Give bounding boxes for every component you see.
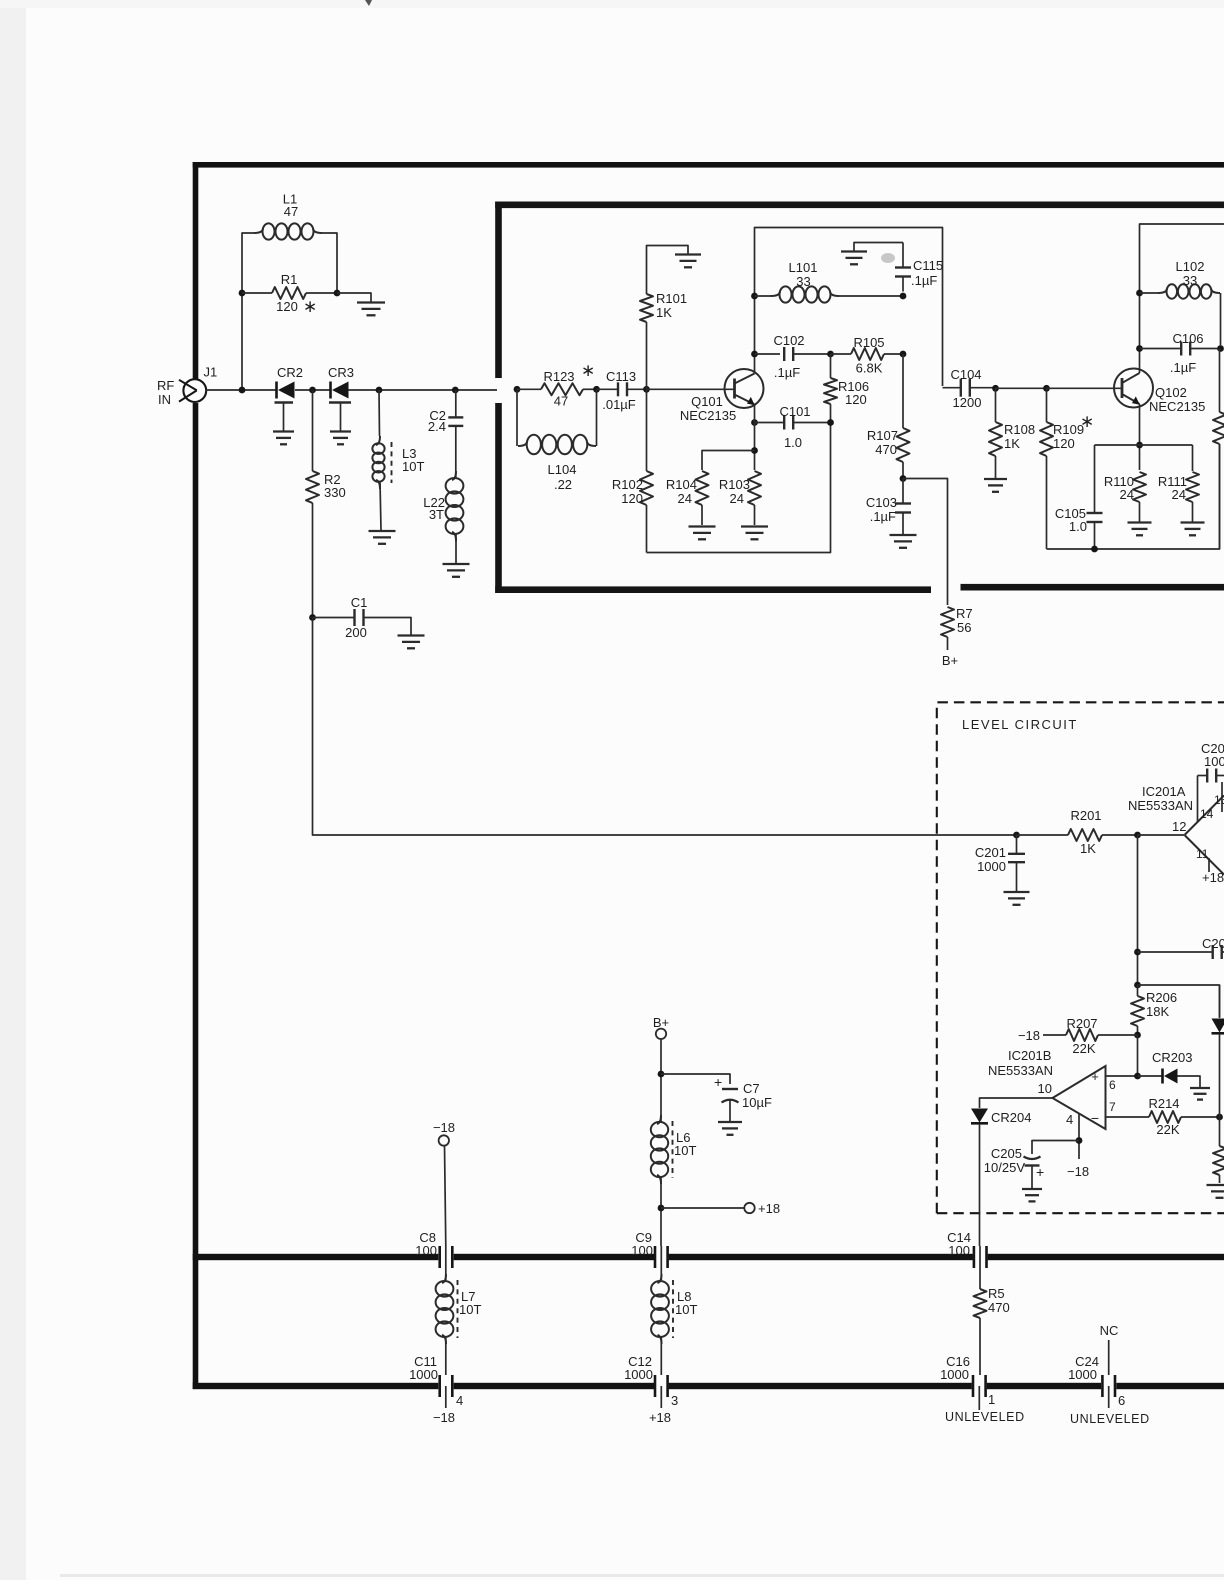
label R104 24 xyxy=(666,477,697,506)
junction C203 node xyxy=(1134,949,1141,956)
junction node D (C2 tap) xyxy=(452,387,459,394)
wire L104 right stub xyxy=(596,389,598,446)
capacitor C1 xyxy=(313,609,364,626)
junction node I (R108 tap) xyxy=(992,385,999,392)
registration mark top xyxy=(365,0,372,6)
svg-text:C201: C201 xyxy=(975,845,1006,860)
label R109* 120 xyxy=(1053,412,1094,451)
label C1 200 xyxy=(345,595,367,640)
wire node I to node J xyxy=(996,387,1047,389)
amplifier shield box left edge xyxy=(495,202,502,594)
capacitor C105 xyxy=(1087,445,1103,549)
wire level-circuit feed xyxy=(313,618,1017,836)
label pin 3 (module) xyxy=(671,1393,678,1408)
terminal B+ xyxy=(656,1029,666,1039)
svg-text:100: 100 xyxy=(1204,754,1224,769)
transistor Q102 xyxy=(1114,369,1153,408)
transistor Q101 xyxy=(725,369,764,408)
svg-text:.1µF: .1µF xyxy=(1170,360,1196,375)
label CR3 xyxy=(328,365,354,380)
junction C102/R106 node xyxy=(827,351,834,358)
resistor R105 xyxy=(831,348,904,360)
svg-text:C104: C104 xyxy=(950,367,981,382)
label UNLEVELED (pin 1) xyxy=(945,1410,1025,1424)
wire to R111 xyxy=(1192,445,1194,471)
svg-text:1K: 1K xyxy=(1004,436,1020,451)
svg-text:RF: RF xyxy=(157,378,174,393)
junction R206/R207 node xyxy=(1134,1032,1141,1039)
wire C11 to pin 4 stub xyxy=(445,1386,447,1408)
label R214 22K xyxy=(1148,1096,1179,1137)
label R201 1K xyxy=(1070,808,1101,856)
wire C1 to ground corner xyxy=(364,618,412,635)
junction node J (R109 tap) xyxy=(1043,385,1050,392)
capacitor C102 xyxy=(784,347,830,361)
resistor R7 xyxy=(941,607,954,650)
label R7 56 xyxy=(956,606,973,635)
svg-text:1000: 1000 xyxy=(624,1367,653,1382)
junction R107/C103 node xyxy=(900,475,907,482)
connector J1 (RF IN) xyxy=(179,365,217,403)
wire C8 to L7 xyxy=(445,1246,447,1280)
wire to R104 xyxy=(702,451,755,471)
svg-text:R201: R201 xyxy=(1070,808,1101,823)
wire L8 to C12 xyxy=(660,1336,662,1375)
label pin 11 and +18 xyxy=(1196,847,1224,885)
svg-text:10: 10 xyxy=(1038,1081,1052,1096)
resistor (right edge, partially cut) xyxy=(1213,349,1224,550)
svg-text:NEC2135: NEC2135 xyxy=(680,408,736,423)
wire op-amp node down xyxy=(1137,835,1139,985)
ground above R101 xyxy=(675,255,701,268)
label C115 .1uF xyxy=(911,258,943,288)
wire pin 6 xyxy=(1106,1075,1138,1077)
wire Q101 emitter xyxy=(754,405,756,471)
label L8 10T xyxy=(675,1289,697,1317)
svg-text:10T: 10T xyxy=(459,1302,481,1317)
label L3 10T xyxy=(402,446,424,474)
svg-text:1000: 1000 xyxy=(940,1367,969,1382)
svg-text:1K: 1K xyxy=(1080,841,1096,856)
shield wall (power feedthrough bus) xyxy=(193,1254,1224,1260)
svg-text:22K: 22K xyxy=(1072,1041,1095,1056)
label L101 33 xyxy=(789,260,818,289)
label C202 100 xyxy=(1201,741,1224,769)
svg-text:10µF: 10µF xyxy=(742,1095,772,1110)
label +18 terminal xyxy=(758,1201,780,1216)
wire collector node to L101 xyxy=(755,295,773,297)
label CR2 xyxy=(277,365,303,380)
svg-text:R105: R105 xyxy=(853,335,884,350)
diode CR2 xyxy=(277,382,295,399)
resistor R103 xyxy=(748,471,761,525)
svg-text:R214: R214 xyxy=(1148,1096,1179,1111)
inductor L1 xyxy=(254,223,322,239)
junction C105 bottom node xyxy=(1091,546,1098,553)
label R5 470 xyxy=(988,1286,1010,1315)
svg-text:1: 1 xyxy=(988,1392,995,1407)
svg-text:100: 100 xyxy=(415,1243,437,1258)
svg-text:C103: C103 xyxy=(866,495,897,510)
resistor R101 xyxy=(640,294,653,322)
svg-text:NC: NC xyxy=(1100,1323,1119,1338)
junction R214 right node xyxy=(1216,1114,1223,1121)
wire L6 to +18 node xyxy=(660,1176,662,1246)
svg-text:C20: C20 xyxy=(1202,936,1224,951)
junction node F xyxy=(514,386,521,393)
feedthrough capacitor C12 xyxy=(655,1375,668,1397)
ground below L22 xyxy=(443,564,470,577)
svg-text:+: + xyxy=(1036,1164,1044,1180)
label R111 24 xyxy=(1158,474,1187,502)
ground below C103 xyxy=(890,535,917,548)
svg-text:120: 120 xyxy=(276,299,298,314)
label C7 10uF xyxy=(742,1081,772,1110)
outer border top edge xyxy=(193,162,1224,168)
wire node A up to L1/R1 branch xyxy=(241,293,243,390)
svg-text:6: 6 xyxy=(1109,1078,1116,1092)
svg-text:R108: R108 xyxy=(1004,422,1035,437)
wire C201 to ground xyxy=(1016,862,1018,891)
label L6 10T xyxy=(674,1130,696,1158)
label C104 1200 xyxy=(950,367,981,410)
label -18 (module pin) xyxy=(433,1410,455,1425)
svg-text:IC201A: IC201A xyxy=(1142,784,1186,799)
wire L7 to C11 xyxy=(445,1336,447,1375)
label R108 1K xyxy=(1004,422,1035,451)
label C101 1.0 xyxy=(779,404,810,450)
ground below CR3 xyxy=(330,432,351,445)
svg-text:−: − xyxy=(1091,1110,1099,1126)
wire to C203 xyxy=(1138,951,1210,953)
junction R206 top node xyxy=(1134,982,1141,989)
svg-text:1000: 1000 xyxy=(1068,1367,1097,1382)
capacitor C202 xyxy=(1198,769,1224,783)
label pin 4 xyxy=(1066,1112,1073,1127)
svg-text:UNLEVELED: UNLEVELED xyxy=(945,1410,1025,1424)
svg-text:120: 120 xyxy=(1053,436,1075,451)
ground below L3 xyxy=(369,531,396,544)
svg-text:∗: ∗ xyxy=(1080,412,1094,431)
svg-text:+: + xyxy=(714,1074,722,1090)
svg-text:NE5533AN: NE5533AN xyxy=(988,1063,1053,1078)
ground below C201 xyxy=(1004,892,1030,905)
label pin 14 xyxy=(1200,807,1214,821)
resistor R104 xyxy=(696,471,709,525)
label +18 (module pin) xyxy=(649,1410,671,1425)
label pin 1 (module) xyxy=(988,1392,995,1407)
capacitor C103 xyxy=(895,479,911,513)
label C201 1000 xyxy=(975,845,1006,874)
inductor L8 xyxy=(651,1274,673,1344)
capacitor C203 (cut) xyxy=(1209,945,1224,959)
resistor R106 xyxy=(824,354,837,423)
svg-text:330: 330 xyxy=(324,485,346,500)
junction emitter/R104 node xyxy=(751,447,758,454)
svg-text:Q102: Q102 xyxy=(1155,385,1187,400)
label R207 22K -18 xyxy=(1018,1016,1098,1056)
feedback loop wire xyxy=(647,423,831,553)
svg-text:1200: 1200 xyxy=(953,395,982,410)
capacitor C104 xyxy=(943,379,996,397)
wire pin6 node to CR203 xyxy=(1138,1075,1163,1077)
wire R101 to node H xyxy=(646,322,648,389)
svg-text:CR3: CR3 xyxy=(328,365,354,380)
wire IC201B output xyxy=(980,1098,1053,1108)
svg-text:CR204: CR204 xyxy=(991,1110,1031,1125)
svg-text:R102: R102 xyxy=(612,477,643,492)
label C14 100 xyxy=(947,1230,971,1258)
svg-text:.01µF: .01µF xyxy=(602,397,636,412)
shunt plate and ground below CR3 xyxy=(329,403,351,432)
feedthrough capacitor C16 xyxy=(973,1375,986,1397)
junction R1 right node xyxy=(334,290,341,297)
label L102 33 xyxy=(1176,259,1205,288)
svg-text:∗: ∗ xyxy=(303,297,317,316)
svg-text:C101: C101 xyxy=(779,404,810,419)
diode CR203 xyxy=(1163,1069,1178,1084)
feedthrough capacitor C9 xyxy=(655,1246,668,1268)
svg-text:IC201B: IC201B xyxy=(1008,1048,1051,1063)
label C106 .1uF xyxy=(1170,331,1204,375)
svg-text:3: 3 xyxy=(671,1393,678,1408)
inductor L6 xyxy=(651,1115,673,1184)
inductor L102 xyxy=(1158,284,1220,298)
label R123* 47 xyxy=(543,361,595,409)
resistor R110 xyxy=(1133,472,1146,522)
ground at C1 xyxy=(398,636,425,649)
svg-text:6.8K: 6.8K xyxy=(856,361,883,376)
label Q102 NEC2135 xyxy=(1149,385,1205,414)
svg-text:C7: C7 xyxy=(743,1081,760,1096)
label R105 6.8K xyxy=(853,335,884,376)
wire node J to Q102 base xyxy=(1047,387,1123,389)
wire node H to Q101 base xyxy=(647,388,735,390)
resistor R1 xyxy=(242,287,337,299)
svg-text:14: 14 xyxy=(1200,807,1214,821)
svg-text:+18: +18 xyxy=(649,1410,671,1425)
svg-text:−18: −18 xyxy=(1018,1028,1040,1043)
svg-text:+: + xyxy=(1091,1069,1099,1084)
svg-text:.1µF: .1µF xyxy=(774,365,800,380)
wire -18 terminal down xyxy=(445,1146,446,1246)
svg-text:7: 7 xyxy=(1109,1100,1116,1114)
wire CR203 to ground xyxy=(1178,1076,1201,1087)
scan smudge artifact xyxy=(881,253,895,263)
inductor L104 xyxy=(518,435,596,454)
svg-text:−18: −18 xyxy=(433,1410,455,1425)
resistor R207 xyxy=(1043,1029,1138,1041)
svg-text:3T: 3T xyxy=(429,507,444,522)
wire pin 7 xyxy=(1106,1116,1150,1118)
inductor L22 xyxy=(446,471,464,541)
wire R207 node to pin 6 node xyxy=(1137,1035,1139,1076)
label C16 1000 xyxy=(940,1354,970,1382)
svg-text:33: 33 xyxy=(796,274,810,289)
label LEVEL CIRCUIT xyxy=(962,717,1078,732)
junction L101/C115 node xyxy=(900,293,907,300)
label C203 xyxy=(1202,936,1224,951)
op-amp IC201A (cut at page edge) xyxy=(1185,796,1224,875)
label CR203 xyxy=(1152,1050,1192,1065)
svg-text:1000: 1000 xyxy=(977,859,1006,874)
junction C201 node xyxy=(1013,832,1020,839)
label C12 1000 xyxy=(624,1354,653,1382)
svg-text:33: 33 xyxy=(1183,273,1197,288)
svg-text:1000: 1000 xyxy=(409,1367,438,1382)
wire L104 left stub xyxy=(516,389,518,446)
wire node C to L3 xyxy=(378,390,381,436)
svg-text:10T: 10T xyxy=(402,459,424,474)
label R2 330 xyxy=(324,472,346,500)
resistor R201 xyxy=(1017,829,1138,841)
label pin 6 xyxy=(1109,1078,1116,1092)
svg-text:CR2: CR2 xyxy=(277,365,303,380)
svg-text:B+: B+ xyxy=(942,653,958,668)
resistor R214 xyxy=(1149,1111,1220,1123)
svg-text:10T: 10T xyxy=(674,1143,696,1158)
terminal -18 (top) xyxy=(439,1135,449,1145)
svg-text:22K: 22K xyxy=(1156,1122,1179,1137)
svg-text:120: 120 xyxy=(621,491,643,506)
svg-text:4: 4 xyxy=(1066,1112,1073,1127)
label L104 .22 xyxy=(548,462,577,492)
outer border bottom edge (feedthrough wall) xyxy=(193,1383,1224,1389)
wire C102 row left xyxy=(755,353,781,355)
junction op-amp input node xyxy=(1134,832,1141,839)
svg-text:R7: R7 xyxy=(956,606,973,621)
ground below R108 xyxy=(984,479,1007,492)
feedthrough capacitor C24 xyxy=(1102,1375,1115,1397)
wire CR204 down to C14 xyxy=(979,1124,981,1246)
wire CR2 to CR3 xyxy=(295,389,331,391)
svg-text:R1: R1 xyxy=(281,272,298,287)
svg-text:47: 47 xyxy=(284,204,298,219)
resistor R5 xyxy=(974,1246,987,1375)
wire to C7 xyxy=(661,1074,730,1084)
svg-text:R207: R207 xyxy=(1066,1016,1097,1031)
label -18 terminal xyxy=(433,1120,455,1135)
label C113 .01uF xyxy=(602,369,636,412)
svg-text:.22: .22 xyxy=(554,477,572,492)
wire B+ down xyxy=(660,1039,662,1122)
junction +18 tap xyxy=(658,1205,665,1212)
shunt plate and ground below CR2 xyxy=(275,403,294,432)
svg-text:IN: IN xyxy=(158,392,171,407)
svg-text:C115: C115 xyxy=(913,258,943,273)
resistor R108 xyxy=(989,388,1002,478)
outer border left edge xyxy=(193,162,199,1389)
inductor L7 xyxy=(436,1274,458,1344)
svg-text:.1µF: .1µF xyxy=(911,273,937,288)
pin 13 wire xyxy=(1221,782,1223,812)
svg-text:1.0: 1.0 xyxy=(784,435,802,450)
svg-text:1K: 1K xyxy=(656,305,672,320)
pin 14 wire xyxy=(1197,776,1199,823)
resistor R111 xyxy=(1186,472,1199,522)
wire branch up to L1 xyxy=(242,233,254,293)
label pin 7 xyxy=(1109,1100,1116,1114)
junction collector/C102 node xyxy=(751,351,758,358)
label B+ terminal xyxy=(653,1015,669,1030)
ground at page edge resistor xyxy=(1207,1185,1224,1198)
junction emitter/C101 node xyxy=(751,419,758,426)
junction collector/C106 node xyxy=(1136,345,1143,352)
diode CR204 xyxy=(971,1109,988,1124)
svg-text:R103: R103 xyxy=(719,477,750,492)
label R107 470 xyxy=(867,428,898,457)
label R101 1K xyxy=(656,291,687,320)
label R1 120* xyxy=(276,272,317,316)
wire node to IC201A pin 12 xyxy=(1138,834,1185,836)
svg-text:24: 24 xyxy=(730,491,744,506)
label C2 2.4 xyxy=(428,408,446,434)
ground below R103 xyxy=(741,527,768,540)
label R106 120 xyxy=(838,379,869,407)
wire Q102 emitter xyxy=(1139,404,1141,470)
label UNLEVELED (pin 6) xyxy=(1070,1412,1150,1426)
label CR204 xyxy=(991,1110,1031,1125)
junction node E (C1 tap) xyxy=(309,614,316,621)
label C9 100 xyxy=(631,1230,653,1258)
svg-text:R107: R107 xyxy=(867,428,898,443)
svg-text:24: 24 xyxy=(678,491,692,506)
label C8 100 xyxy=(415,1230,437,1258)
svg-text:470: 470 xyxy=(875,442,897,457)
junction node A xyxy=(239,387,246,394)
feedthrough capacitor C8 xyxy=(440,1246,453,1268)
wire collector node to L102 xyxy=(1140,292,1160,294)
wire Q102 collector rail xyxy=(1140,224,1224,373)
svg-text:R101: R101 xyxy=(656,291,687,306)
label L7 10T xyxy=(459,1289,481,1317)
amplifier shield box top edge xyxy=(495,202,1224,209)
ground at R1 xyxy=(357,303,385,316)
svg-text:J1: J1 xyxy=(204,365,218,380)
svg-text:12: 12 xyxy=(1172,819,1186,834)
wire pin4 node to C205 xyxy=(1032,1141,1079,1155)
resistor (page edge, below R214 node) xyxy=(1213,1117,1224,1183)
resistor R102 xyxy=(640,389,653,552)
svg-text:CR203: CR203 xyxy=(1152,1050,1192,1065)
wire L1 right side down xyxy=(322,233,337,293)
wire NC stub xyxy=(1108,1340,1110,1375)
wire CR3 to shield box xyxy=(349,389,498,391)
wire C2 to L22 xyxy=(455,426,457,478)
svg-text:18K: 18K xyxy=(1146,1004,1169,1019)
svg-text:24: 24 xyxy=(1120,487,1134,502)
wire R206 node right xyxy=(1138,985,1220,1017)
svg-text:56: 56 xyxy=(957,620,971,635)
label B+ (Q101 supply) xyxy=(942,653,958,668)
svg-text:10T: 10T xyxy=(675,1302,697,1317)
junction C7 tap xyxy=(658,1071,665,1078)
bottom loop wire (R109/C105/right) xyxy=(1047,444,1220,549)
junction node H xyxy=(643,386,650,393)
junction R105/C115 column node xyxy=(900,351,907,358)
junction collector/L102 node xyxy=(1136,290,1143,297)
label pin 12 xyxy=(1172,819,1186,834)
svg-text:C106: C106 xyxy=(1172,331,1203,346)
label Q101 NEC2135 xyxy=(680,394,736,423)
svg-text:+18: +18 xyxy=(1202,870,1224,885)
diode CR3 xyxy=(331,382,349,399)
label pin 13 xyxy=(1214,793,1224,807)
emitter row wire xyxy=(1095,444,1193,446)
svg-text:100: 100 xyxy=(631,1243,653,1258)
wire edge diode to R214 node xyxy=(1219,1034,1221,1117)
svg-text:470: 470 xyxy=(988,1300,1010,1315)
